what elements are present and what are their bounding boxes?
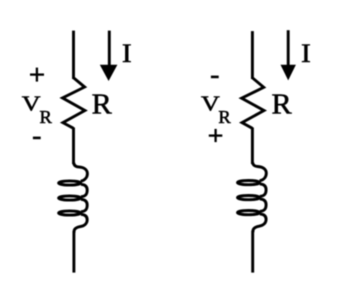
- svg-text:I: I: [122, 39, 132, 68]
- inductor L2 (right coil): [238, 162, 267, 232]
- wire: right resistor to inductor: [251, 128, 254, 165]
- wire: left bottom conductor: [72, 231, 75, 273]
- wire: right top conductor: [251, 31, 254, 79]
- wire: left resistor to inductor: [72, 128, 75, 165]
- wire: left top conductor: [72, 31, 75, 79]
- svg-text:V: V: [201, 93, 220, 116]
- inductor L1 (left coil): [59, 163, 88, 233]
- svg-text:R: R: [92, 89, 113, 120]
- resistor R1 (left zigzag): [63, 78, 85, 129]
- svg-text:R: R: [218, 107, 231, 127]
- current arrow I (right, head): [281, 65, 296, 81]
- label + (left, top polarity): [30, 68, 44, 82]
- svg-text:R: R: [272, 89, 293, 120]
- current arrow I (left, shaft): [108, 31, 111, 70]
- svg-text:R: R: [40, 107, 53, 127]
- label + (right, bottom polarity): [209, 129, 223, 142]
- wire: right bottom conductor: [251, 231, 254, 273]
- current arrow I (left, head): [100, 65, 118, 81]
- svg-text:V: V: [22, 93, 41, 116]
- label VR (right voltage): [201, 93, 232, 127]
- label VR (left voltage): [22, 93, 53, 127]
- label - (right, top polarity): [211, 76, 219, 79]
- svg-text:I: I: [301, 39, 311, 68]
- current arrow I (right, shaft): [287, 30, 290, 70]
- resistor R2 (right zigzag): [242, 78, 264, 129]
- label - (left, bottom polarity): [33, 137, 41, 140]
